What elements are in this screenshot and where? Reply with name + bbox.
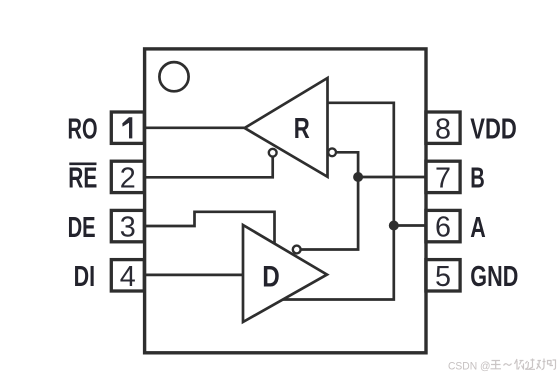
wire node A to pin6	[394, 224, 426, 227]
svg-text:3: 3	[120, 212, 136, 244]
IC body (DIP-8 package outline)	[145, 49, 426, 353]
wire pin4 DI to driver input	[145, 274, 243, 277]
watermark CSDN	[448, 359, 556, 373]
svg-text:GND: GND	[470, 261, 518, 293]
pin 1 box	[111, 112, 144, 143]
svg-text:6: 6	[435, 212, 451, 244]
svg-text:R: R	[294, 113, 310, 145]
svg-text:CSDN @: CSDN @	[448, 361, 491, 373]
pin 3 box	[111, 210, 144, 241]
svg-text:8: 8	[435, 113, 451, 145]
svg-text:7: 7	[435, 163, 451, 195]
svg-text:D: D	[262, 260, 280, 293]
junction node A	[389, 221, 399, 231]
svg-text:2: 2	[120, 163, 136, 195]
svg-text:VDD: VDD	[470, 113, 517, 145]
svg-text:DI: DI	[74, 261, 96, 293]
receiver inverting input bubble	[328, 148, 336, 156]
pin 8 box	[426, 112, 460, 143]
junction node B	[353, 172, 363, 182]
pin 7 box	[426, 161, 460, 192]
svg-text:DE: DE	[68, 212, 96, 244]
svg-text:5: 5	[435, 261, 451, 293]
pin 2 box	[111, 161, 144, 192]
svg-text:RO: RO	[68, 113, 98, 145]
wire pin1 RO to R output apex	[145, 126, 245, 129]
pin 1 indicator circle	[159, 62, 188, 91]
wire pin2 RE to receiver enable	[145, 157, 273, 178]
wire pin3 DE to driver enable	[145, 212, 275, 244]
receiver buffer R (triangle, points left)	[245, 78, 328, 177]
pin 6 box	[426, 210, 460, 241]
pin 5 box	[426, 260, 460, 291]
svg-text:4: 4	[120, 261, 136, 293]
pin 1 number	[122, 117, 132, 138]
driver inverting output bubble	[293, 246, 301, 254]
svg-text:A: A	[470, 212, 486, 244]
svg-text:B: B	[470, 163, 485, 195]
driver buffer D (triangle, points right)	[243, 225, 327, 322]
wire node B to pin7	[358, 176, 426, 179]
RE overline	[69, 163, 96, 166]
wire receiver inverting input to B line	[301, 152, 358, 249]
pin 4 box	[111, 260, 144, 291]
svg-text:RE: RE	[68, 163, 97, 195]
wire receiver noninverting input from A line	[283, 103, 394, 300]
receiver enable bubble	[269, 149, 277, 157]
